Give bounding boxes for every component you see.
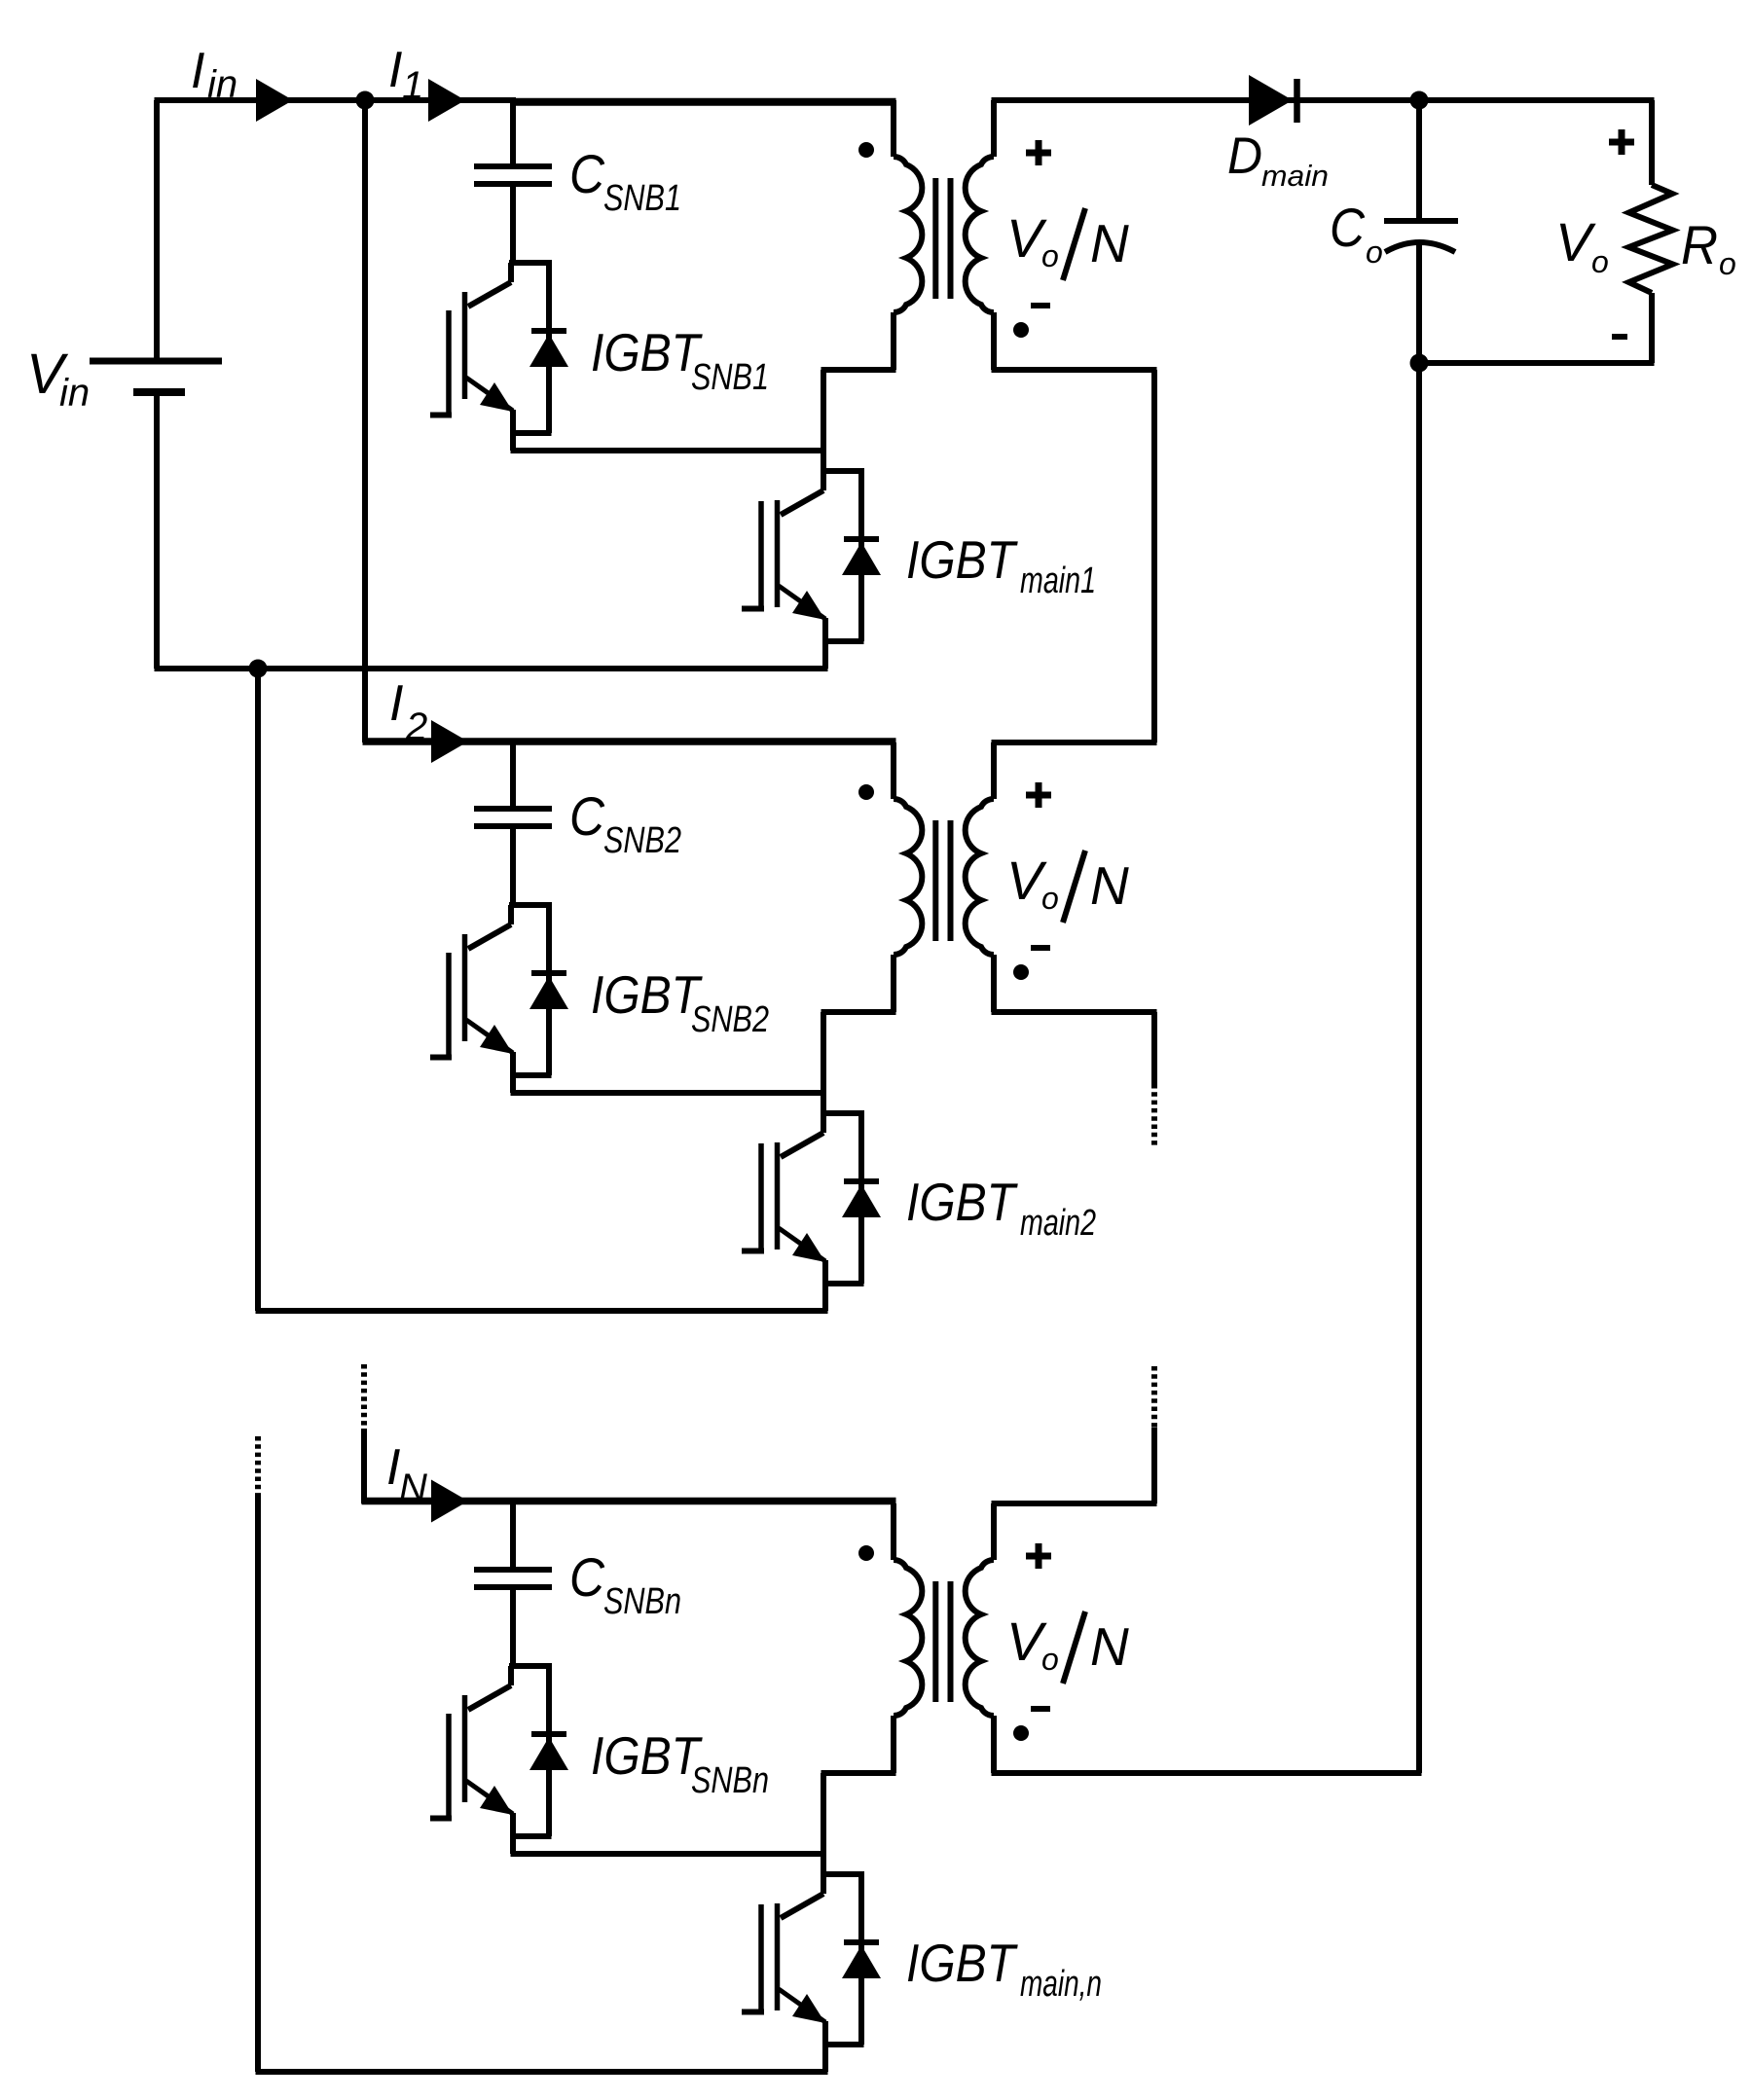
svg-text:2: 2: [405, 706, 427, 748]
svg-text:SNBn: SNBn: [691, 1760, 769, 1801]
svg-text:C: C: [569, 143, 604, 204]
svg-text:SNB2: SNB2: [603, 820, 681, 861]
svg-text:N: N: [1090, 1616, 1129, 1677]
svg-text:I: I: [191, 43, 204, 99]
svg-text:R: R: [1681, 214, 1718, 275]
svg-text:main2: main2: [1020, 1203, 1096, 1244]
svg-text:IGBT: IGBT: [906, 1172, 1018, 1232]
svg-text:IGBT: IGBT: [591, 322, 703, 382]
svg-text:o: o: [1041, 238, 1059, 273]
svg-text:o: o: [1719, 246, 1736, 281]
svg-text:V: V: [1555, 211, 1596, 272]
svg-text:o: o: [1591, 244, 1609, 279]
svg-text:main1: main1: [1020, 561, 1096, 601]
svg-text:in: in: [207, 63, 237, 106]
svg-text:main: main: [1261, 159, 1329, 193]
svg-text:o: o: [1041, 1642, 1059, 1677]
svg-text:I: I: [389, 675, 403, 732]
svg-text:D: D: [1227, 127, 1262, 185]
svg-text:N: N: [399, 1466, 427, 1509]
svg-text:C: C: [569, 785, 604, 847]
svg-text:SNB1: SNB1: [691, 357, 769, 398]
svg-text:IGBT: IGBT: [591, 964, 703, 1025]
svg-text:I: I: [388, 42, 402, 98]
svg-text:SNB1: SNB1: [603, 178, 681, 219]
svg-text:in: in: [59, 372, 90, 415]
svg-text:C: C: [1330, 197, 1365, 258]
svg-text:IGBT: IGBT: [906, 529, 1018, 590]
svg-text:main,n: main,n: [1020, 1964, 1102, 2005]
svg-text:IGBT: IGBT: [591, 1725, 703, 1786]
svg-text:SNBn: SNBn: [603, 1581, 681, 1622]
svg-text:IGBT: IGBT: [906, 1933, 1018, 1993]
svg-text:N: N: [1090, 213, 1129, 273]
svg-text:N: N: [1090, 855, 1129, 916]
svg-text:1: 1: [402, 64, 423, 107]
svg-text:o: o: [1041, 881, 1059, 916]
svg-text:SNB2: SNB2: [691, 999, 769, 1040]
svg-text:o: o: [1366, 235, 1383, 270]
svg-text:C: C: [569, 1546, 604, 1608]
